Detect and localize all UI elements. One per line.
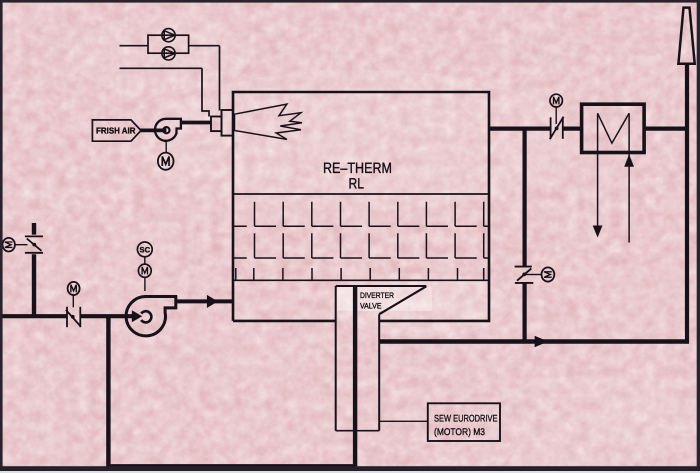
up arrowhead (624, 154, 634, 167)
RE-THERM vessel RL (233, 92, 489, 321)
wire: bypass junction riser upper (522, 129, 526, 267)
damper valve V3 (550, 117, 564, 140)
label M5 (162, 156, 169, 166)
wire: damper to heat exchanger (563, 127, 582, 131)
svg-text:VALVE: VALVE (360, 301, 382, 310)
wire: HX down leg (597, 113, 599, 231)
wire: bypass junction riser lower (522, 283, 526, 342)
check valve CV2 (bottom) (162, 47, 175, 60)
label M3 (142, 267, 147, 275)
wire: recirculation run (down, across bottom, up into diverter duct) (108, 285, 355, 466)
fan F1 eye (163, 127, 169, 133)
wire: blower outlet to RE-THERM (176, 299, 233, 303)
wire: fan F1 to motor (165, 141, 167, 153)
flow arrow into blower (132, 310, 142, 322)
damper valve V2 (66, 307, 81, 327)
check valve CV1 (top) (162, 29, 175, 42)
svg-text:RL: RL (349, 176, 365, 193)
wire: branch duct upper stub (32, 223, 36, 235)
heat exchanger box (582, 104, 645, 152)
motor M2 circle (68, 282, 80, 295)
wire: gas pipe from check valves to burner drop (189, 45, 220, 47)
label M6 (rotated) (544, 272, 552, 277)
frame border (0, 0, 700, 3)
controller SC circle (137, 242, 152, 257)
burner main block (222, 110, 234, 136)
svg-text:SC: SC (140, 245, 151, 254)
diverter duct bottom (336, 430, 380, 432)
wire: motor M4 stem (555, 107, 557, 124)
matrix row 2 (233, 233, 489, 258)
diverter flap diagonal (379, 286, 426, 314)
svg-text:FRISH AIR: FRISH AIR (96, 126, 136, 136)
FRISH AIR flag (92, 120, 141, 141)
diverter duct top (336, 285, 427, 287)
motor M5 circle (158, 153, 174, 170)
wire: main inlet duct left segment (0, 314, 67, 318)
wire: exhaust run from diverter to riser (379, 339, 689, 343)
matrix row 1 (233, 202, 489, 227)
label M4 (554, 97, 559, 105)
motor M6 circle (542, 267, 555, 281)
SEW EURODRIVE label box (428, 403, 500, 441)
wire: stack riser (685, 64, 689, 344)
svg-text:SEW EURODRIVE: SEW EURODRIVE (434, 414, 498, 425)
flow arrow into RE-THERM (207, 295, 218, 308)
label M2 (71, 285, 76, 293)
label M1 (rotated) (5, 242, 13, 247)
wire: upper gas pipe to check valves (120, 45, 149, 47)
motor M3 circle (138, 264, 151, 277)
wire: gas drop left with jog (202, 68, 209, 116)
fan F1 volute (fresh air) (155, 119, 181, 141)
diverter duct left wall (335, 286, 337, 431)
wire: motor M3 stem to blower (144, 277, 146, 291)
matrix row 3 ticks (236, 268, 484, 280)
wire: motor M1 stem (15, 244, 28, 246)
diverter duct right wall (378, 314, 380, 431)
down arrowhead (593, 226, 603, 238)
wire: SC to M3 link (144, 256, 146, 264)
svg-text:(MOTOR) M3: (MOTOR) M3 (434, 427, 485, 438)
stack (678, 8, 694, 64)
wire: lower gas pipe (120, 67, 203, 69)
blower B1 volute (126, 296, 176, 335)
wire: inlet duct mid segment to blower (80, 314, 134, 318)
flame (235, 104, 303, 139)
motor M4 circle (550, 94, 562, 107)
wire: vessel outlet to damper V3 (489, 127, 551, 131)
wire: link to SEW label (379, 420, 428, 422)
wire: gas drop right (219, 46, 221, 111)
wire: flag to fan (140, 129, 166, 133)
svg-text:RE–THERM: RE–THERM (323, 160, 392, 177)
wire: fuel/air line into burner (181, 121, 212, 125)
wire: motor M2 stem (72, 295, 74, 308)
damper valve V4 (515, 267, 534, 283)
check valve bypass frame (148, 35, 189, 53)
heat exchanger internal V (598, 113, 630, 143)
wire: HX outlet to stack riser (644, 127, 687, 131)
svg-text:DIVERTER: DIVERTER (360, 291, 394, 300)
wire: HX up leg (628, 113, 630, 242)
matrix top line (233, 193, 489, 195)
wire: motor M6 stem (526, 274, 542, 276)
motor M1 circle (3, 238, 15, 252)
blower B1 eye (141, 311, 151, 322)
burner pilot block (211, 117, 222, 132)
flow arrow on exhaust run (535, 336, 549, 348)
damper valve V1 (25, 236, 43, 252)
wire: branch duct up from inlet (32, 254, 36, 316)
matrix bottom line (233, 279, 489, 281)
